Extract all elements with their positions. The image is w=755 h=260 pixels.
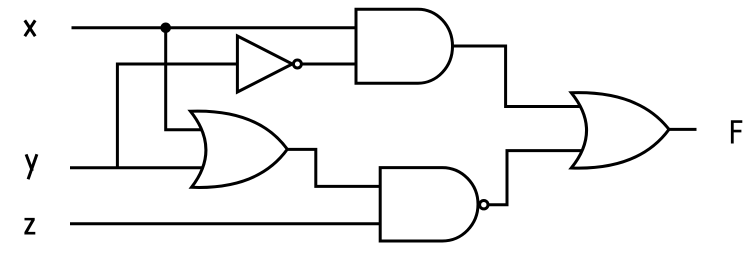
- NAND gate body: [380, 168, 478, 241]
- junction dot on x wire: [160, 23, 171, 34]
- NAND output bubble: [480, 201, 488, 209]
- wire from x junction down to middle OR top input: [166, 28, 206, 130]
- input label y: [26, 154, 37, 179]
- wire inverter output to AND input: [301, 63, 357, 66]
- wire right OR output to F: [669, 128, 697, 131]
- wire middle OR output down to NAND top input: [284, 149, 381, 186]
- wire input z horizontal to NAND bottom input: [70, 222, 381, 225]
- OR gate (right, output F): [571, 93, 669, 168]
- inverter (NOT gate) triangle: [237, 36, 292, 92]
- wire NAND output up to right OR bottom input: [488, 151, 592, 205]
- wire y branch up to inverter input: [117, 64, 237, 169]
- AND gate (top): [356, 9, 453, 83]
- wire input y horizontal to middle OR bottom input: [70, 166, 206, 169]
- inverter output bubble: [293, 60, 301, 68]
- input label z: [24, 218, 35, 235]
- output label F: [731, 120, 742, 143]
- wire AND output down to right OR top input: [452, 46, 592, 107]
- OR gate (middle): [190, 111, 287, 187]
- input label x: [25, 20, 35, 36]
- wire input x horizontal: [72, 26, 357, 29]
